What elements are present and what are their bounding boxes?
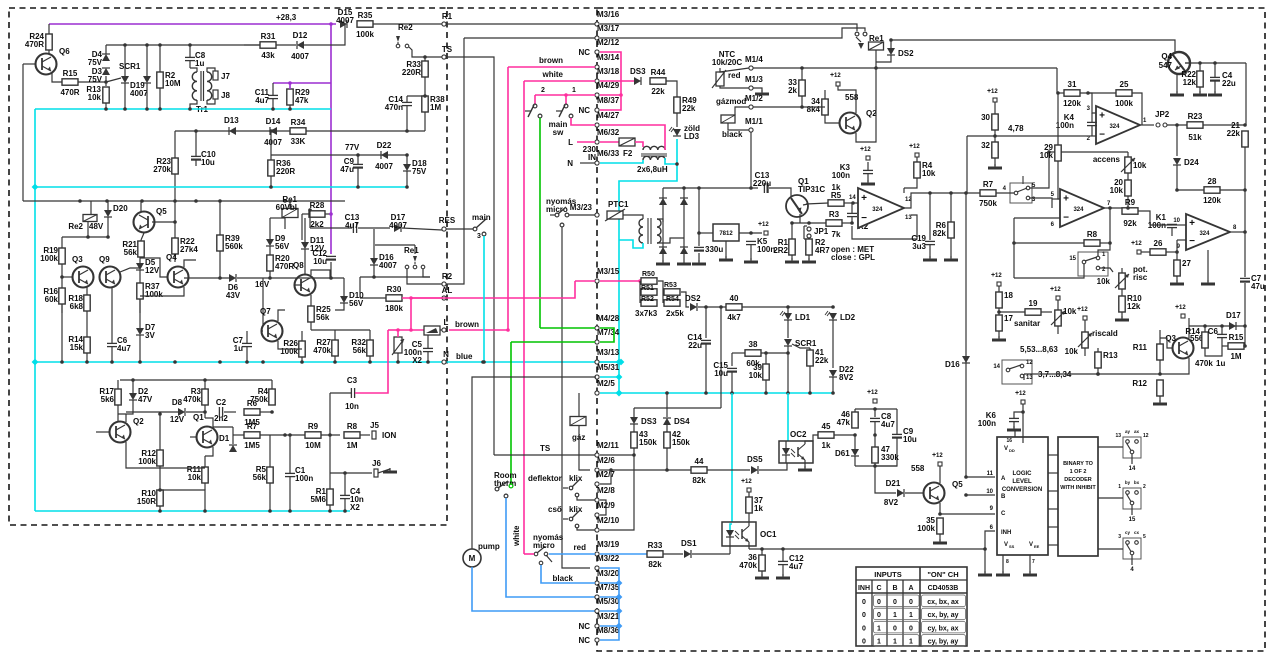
junction jq3 [60, 275, 64, 279]
resistor 19 [1025, 299, 1041, 315]
wire magenta M3/14 [508, 66, 595, 68]
wire r13 a [1097, 348, 1099, 352]
label LD1 lbl [795, 313, 811, 322]
svg-text:DS4: DS4 [674, 417, 690, 426]
junction c6 [271, 107, 275, 111]
junction j77b [405, 153, 409, 157]
diode bridge D c [659, 247, 667, 254]
diode D17 right [1229, 322, 1236, 330]
label gaz lbl [572, 433, 585, 442]
junction c362-335 [333, 360, 337, 364]
wire blue m321 stub [600, 625, 619, 627]
junction j45b [145, 43, 149, 47]
wire DS3 in [600, 80, 634, 82]
resistor R26 [299, 341, 305, 357]
wire k2 link2 [851, 217, 853, 223]
junction cb1 [158, 509, 162, 513]
wire c6 b [1221, 338, 1223, 346]
wire SCR1 gate [106, 78, 121, 82]
svg-text:risc: risc [1133, 273, 1148, 282]
junction b4 [270, 410, 274, 414]
junction cd2 [32, 359, 39, 366]
resistor 31 120k [1063, 80, 1081, 108]
pin M4/29 [595, 81, 620, 97]
svg-text:R9: R9 [308, 422, 319, 431]
svg-text:120k: 120k [1203, 196, 1221, 205]
wire room blue [506, 498, 595, 597]
label pot risc lbl [1133, 265, 1148, 282]
pin M2/9 [595, 501, 615, 517]
label R4 [250, 387, 268, 404]
resistor R13 right [1095, 352, 1101, 368]
svg-text:2x5k: 2x5k [666, 309, 684, 318]
wire ntc bot [720, 86, 749, 88]
diode bridge D d [680, 247, 688, 254]
capacitor C15 10u [727, 368, 737, 371]
label K3 [832, 163, 851, 180]
wire J6 link [330, 472, 372, 474]
wire R36b [270, 176, 272, 187]
svg-text:12: 12 [1081, 307, 1088, 313]
wire ds34 right [667, 407, 721, 409]
junction cyd2 [616, 390, 623, 397]
svg-text:R31: R31 [261, 32, 276, 41]
wire Q1-D1 [213, 426, 233, 428]
R53 lbl [664, 282, 677, 289]
junction m3 [140, 199, 144, 203]
wire klix2 out [577, 528, 595, 530]
svg-text:+: + [1063, 194, 1069, 205]
junction j45 [853, 433, 857, 437]
label C13 left [345, 213, 360, 230]
label D16 left [379, 253, 397, 270]
svg-text:R13: R13 [1103, 351, 1118, 360]
junction cm766 [764, 391, 768, 395]
wire c14 bot [705, 344, 707, 393]
label C4 X2 [350, 503, 360, 512]
svg-text:2: 2 [1143, 484, 1146, 490]
svg-text:M2/6: M2/6 [597, 456, 615, 465]
label R17 [99, 387, 114, 404]
wire to D21 [875, 466, 896, 493]
jumper JP2 [1155, 110, 1170, 127]
label 3x7k3 [635, 309, 658, 318]
wire re1 bot [875, 50, 877, 68]
wire magenta AL [402, 297, 442, 299]
wire magenta C3 [355, 330, 388, 393]
label K5 [757, 237, 775, 254]
choke core [641, 154, 667, 156]
diode D7 [136, 328, 144, 335]
svg-text:10M: 10M [305, 441, 321, 450]
wire gazmod wire2 [728, 123, 749, 130]
svg-text:R5: R5 [831, 191, 842, 200]
label gazmod [716, 97, 746, 106]
capacitor C330 [694, 247, 704, 250]
junction jq1e [790, 221, 794, 225]
svg-text:R12: R12 [1132, 379, 1147, 388]
wire r33-ds1 [663, 553, 683, 555]
wire 456 bus [855, 465, 897, 467]
wire ds4 a [666, 408, 668, 417]
label C9 lbl [903, 427, 917, 444]
resistor 21 22k [1242, 131, 1248, 147]
label D1 [219, 434, 230, 443]
label cso [548, 505, 562, 514]
wire C7b [246, 347, 248, 362]
svg-text:270k: 270k [153, 165, 171, 174]
wire Re1 bridge [375, 244, 415, 246]
wire Re1c w [407, 269, 442, 284]
svg-text:IN: IN [588, 153, 596, 162]
wire C12b [330, 262, 332, 278]
transistor Q3 556 [1173, 338, 1194, 359]
resistor R30 [386, 285, 402, 301]
label C14 left [385, 95, 404, 112]
label 30 lbl [981, 113, 990, 122]
power +12 q5 +12 [932, 452, 943, 466]
svg-text:+: + [1189, 218, 1195, 229]
wire k5b [750, 245, 752, 260]
svg-text:558: 558 [845, 93, 859, 102]
label 47 lbl [881, 445, 899, 462]
wire k6 wire [1022, 404, 1024, 443]
ground r12 gnd [1153, 400, 1167, 404]
wire D3-D4 [105, 45, 107, 54]
svg-text:cy, by, ay: cy, by, ay [928, 639, 959, 646]
svg-text:M7/34: M7/34 [597, 328, 620, 337]
wire ds1 out [692, 553, 730, 555]
label D61 lbl [835, 449, 850, 458]
wire R27t [334, 330, 336, 340]
wire TS to R33 [424, 56, 426, 58]
border right board box [597, 8, 1265, 651]
junction jr3b [807, 221, 811, 225]
resistor R38 [422, 96, 428, 112]
wire D12e [304, 24, 345, 45]
wire oc1 coll [748, 525, 750, 527]
wire s2 out2 [1100, 268, 1113, 272]
svg-text:R7: R7 [247, 422, 258, 431]
junction j38 [786, 351, 790, 355]
wire cyan rail 2 [35, 186, 407, 188]
relay contact Re1 [405, 256, 425, 269]
wire 27 drop [1176, 240, 1178, 260]
wire D10b [335, 303, 344, 310]
label L 230 [568, 138, 573, 147]
wire u3 plus [1052, 198, 1060, 200]
connector J8 [213, 90, 230, 100]
svg-text:150R: 150R [137, 497, 156, 506]
wire ds3 a [633, 408, 635, 417]
wire C9b [357, 168, 359, 187]
junction jq5e [938, 512, 942, 516]
wire 44 line [611, 469, 691, 471]
svg-text:black: black [553, 574, 574, 583]
label R19 [40, 246, 58, 263]
label white lbl2 [542, 70, 564, 79]
resistor R54 [664, 300, 680, 306]
svg-text:R44: R44 [651, 68, 666, 77]
svg-text:R30: R30 [387, 285, 402, 294]
junction c362-398 [396, 360, 400, 364]
junction cd1 [32, 184, 39, 191]
wire c4 bot [1214, 81, 1216, 93]
svg-text:12: 12 [1019, 391, 1026, 397]
wire cyan bus mid [600, 392, 833, 394]
wire c15 top [731, 353, 733, 366]
svg-text:16: 16 [1006, 438, 1012, 444]
wire Re2c wire [409, 47, 442, 57]
wire T1 sec top [657, 219, 663, 222]
wire Q8 link [311, 329, 370, 331]
diode D11 [301, 242, 309, 249]
wire M1/1 drop [750, 130, 752, 188]
ground k5 gnd [744, 258, 758, 262]
label R23 [153, 157, 171, 174]
svg-text:25: 25 [1120, 80, 1129, 89]
svg-text:8: 8 [1006, 559, 1009, 565]
R3 7k value [832, 230, 841, 239]
junction jr13 [1096, 372, 1100, 376]
wire gazmod wire [735, 107, 749, 115]
junction j237a [86, 235, 90, 239]
wire bus link 5 [1048, 544, 1058, 546]
junction jfb [1012, 241, 1016, 245]
svg-text:4007: 4007 [375, 162, 393, 171]
wire oa out [904, 193, 960, 208]
label NC 21 [578, 622, 590, 631]
svg-text:V: V [1029, 542, 1033, 548]
svg-text:0: 0 [909, 599, 913, 606]
wire d61 top [854, 435, 856, 449]
svg-text:J8: J8 [221, 91, 230, 100]
label C15 lbl [713, 361, 728, 378]
wire R11t [204, 456, 206, 467]
junction jd6 [218, 276, 222, 280]
label blue lbl [456, 352, 473, 361]
label 42 lbl [672, 430, 690, 447]
wire oa fb [852, 215, 917, 239]
svg-text:4007: 4007 [291, 52, 309, 61]
diode DS2 mid [690, 303, 697, 311]
label NC M8/37 [578, 106, 590, 115]
wire Q5b wire [152, 221, 175, 223]
label deflektor [528, 474, 562, 483]
svg-text:1u: 1u [1216, 359, 1225, 368]
switch nyomas micro 1 [550, 207, 569, 227]
label D24 lbl [1184, 158, 1199, 167]
diode D6 [229, 274, 236, 282]
wire to ax/ay [1098, 446, 1123, 448]
wire raw rail [663, 187, 751, 189]
svg-text:4007: 4007 [130, 89, 148, 98]
svg-text:17: 17 [1004, 314, 1013, 323]
wire R3t [204, 380, 206, 389]
wire R8e [360, 434, 370, 436]
pin M2/8 [595, 486, 615, 502]
wire r7 in [960, 192, 980, 194]
junction mj1 [396, 328, 400, 332]
wire q4 coll rail [1189, 62, 1246, 64]
wire D9-R20 [269, 246, 271, 255]
power +12 k3 +12 [860, 146, 871, 160]
svg-text:28: 28 [1208, 177, 1217, 186]
wire C3 left [329, 393, 331, 435]
diode bridge D a [659, 198, 667, 205]
wire ds2 top [890, 40, 892, 48]
svg-text:22u: 22u [1222, 79, 1236, 88]
label main lbl [472, 213, 491, 222]
wire 42 b [666, 448, 668, 470]
pump motor M [463, 549, 481, 567]
diode D1 [229, 445, 237, 452]
svg-text:C3: C3 [347, 376, 358, 385]
wire M2/10 loop [600, 455, 634, 530]
wire TS join [494, 454, 595, 456]
resistor R5b [267, 467, 273, 483]
label D11 [310, 236, 325, 253]
wire q1-r5 [806, 203, 828, 204]
svg-text:14: 14 [1129, 466, 1136, 472]
svg-text:45: 45 [822, 422, 831, 431]
pin M3/23 [570, 203, 599, 217]
transistor Q8 [293, 261, 316, 296]
wire SCR1 wires [124, 45, 126, 76]
diode DS4 mid [663, 418, 671, 425]
svg-text:470k: 470k [1195, 359, 1213, 368]
wire accens top [1127, 152, 1129, 157]
wire q2 base [825, 115, 840, 123]
svg-text:Q6: Q6 [59, 47, 70, 56]
svg-text:R52: R52 [641, 296, 654, 303]
svg-text:0: 0 [893, 599, 897, 606]
wire R6e [260, 411, 272, 413]
wire 34 top [824, 90, 826, 99]
diode D19 [143, 76, 151, 83]
wire green M4/28 [540, 327, 595, 329]
ground J6 ground [383, 468, 397, 472]
svg-text:klix: klix [569, 505, 583, 514]
label D15 [336, 8, 354, 25]
capacitor C7a [242, 343, 252, 346]
wire k4 a [1091, 113, 1093, 122]
pin M7/34 [595, 328, 620, 344]
wire R2 b [159, 88, 161, 109]
wire R28 left drop [301, 214, 303, 240]
junction m7 [283, 199, 287, 203]
wire q3 base [1160, 338, 1173, 348]
wire m14 in2 [966, 136, 968, 193]
pin M2/7 [595, 470, 615, 486]
resistor 27 [1174, 260, 1180, 276]
wire bus link 4 [1048, 526, 1058, 528]
wire M6/33 left stub [580, 162, 595, 164]
pin M3/19 [595, 540, 620, 556]
wire 43 b [633, 448, 635, 455]
wire d21 out [905, 492, 923, 494]
svg-text:75V: 75V [88, 58, 103, 67]
wire Re1 top stub [289, 201, 291, 209]
svg-text:R6: R6 [247, 399, 258, 408]
svg-text:1u: 1u [234, 344, 243, 353]
label pin9 [990, 506, 994, 512]
label NTC [712, 50, 742, 67]
wire 45 out [834, 434, 855, 436]
wire pot bot [397, 353, 399, 362]
label DS4 mid lbl [674, 417, 690, 426]
wire r8 r [1100, 242, 1110, 244]
potentiometer pot risc [1115, 273, 1129, 289]
wire Q7 emit [278, 341, 302, 349]
svg-text:1: 1 [877, 625, 881, 632]
capacitor K6 [1009, 418, 1019, 421]
junction b9 [328, 433, 332, 437]
label C8 lbl [881, 412, 895, 429]
label black lbl M1 [722, 130, 743, 139]
svg-text:12: 12 [1143, 433, 1149, 439]
svg-text:black: black [722, 130, 743, 139]
pin M3/14 [595, 53, 620, 69]
label D3 [88, 67, 103, 84]
junction cm732 [730, 391, 734, 395]
diode OC1 led [726, 530, 734, 537]
junction c9 [405, 185, 409, 189]
svg-text:R54: R54 [666, 296, 679, 303]
junction jk2 [850, 221, 854, 225]
wire ld1-scr [787, 320, 789, 338]
label R39 [225, 234, 243, 251]
pin M3/22 [595, 554, 620, 570]
diode LD2 [825, 311, 837, 320]
wire D7t [139, 299, 141, 328]
svg-text:R14: R14 [1185, 327, 1200, 336]
wire san bot [1057, 326, 1059, 334]
wire Q8 base l [295, 284, 302, 286]
resistor 35 100k [937, 518, 943, 534]
wire c8 bot [874, 422, 876, 435]
svg-text:1M: 1M [1230, 352, 1241, 361]
capacitor C14a [402, 102, 412, 105]
wire r14 rail [1189, 325, 1245, 327]
junction jr1 [682, 186, 686, 190]
wire Re2 bot [87, 222, 89, 237]
wire C6t [111, 287, 113, 343]
junction jA [964, 475, 968, 479]
svg-text:M3/14: M3/14 [597, 53, 620, 62]
wire Q3-R18 [86, 287, 88, 295]
wire R33b [424, 77, 426, 96]
resistor R39 [217, 235, 223, 251]
wire r3 in [792, 222, 826, 224]
svg-text:Q4: Q4 [1161, 52, 1172, 61]
label 29 lbl [1040, 143, 1054, 160]
svg-text:J7: J7 [221, 72, 230, 81]
wire r8 up [1109, 208, 1111, 243]
junction ju3 [1108, 206, 1112, 210]
junction jpur [288, 81, 292, 85]
capacitor C9a [353, 164, 363, 167]
inductor Tr1 secondary [207, 72, 212, 100]
wire oc2 led top [785, 441, 787, 449]
svg-text:M4/29: M4/29 [597, 81, 620, 90]
wire oc2 out [813, 435, 818, 441]
diode D18 [403, 164, 411, 171]
svg-text:12: 12 [1054, 287, 1061, 293]
label C19 [911, 234, 926, 251]
label open MET [831, 245, 874, 254]
svg-text:LD3: LD3 [684, 132, 700, 141]
